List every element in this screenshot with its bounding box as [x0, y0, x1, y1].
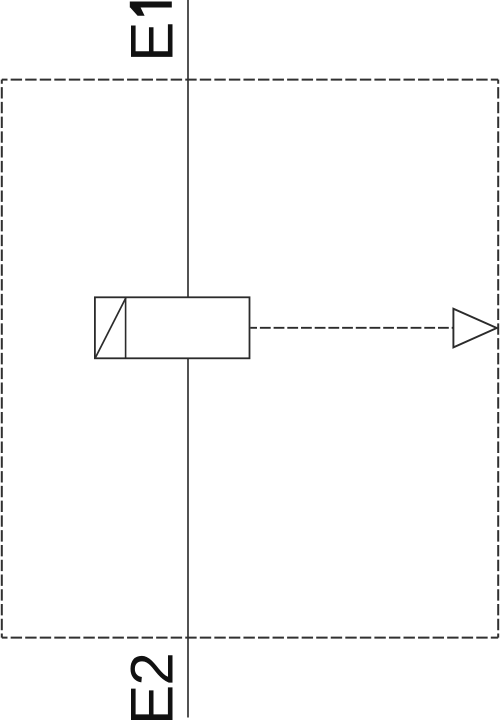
svg-text:E2: E2: [119, 653, 186, 720]
svg-text:E: E: [119, 22, 186, 62]
